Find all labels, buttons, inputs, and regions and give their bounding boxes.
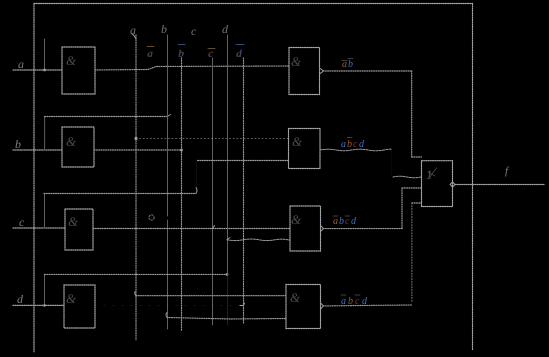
svg-text:b: b (15, 137, 21, 151)
bus line d (227, 35, 229, 275)
wire d branch horizontal to bus d (45, 273, 228, 275)
border frame top (34, 3, 473, 5)
node junction d-branch corner (43, 304, 46, 307)
wire stub above a (44, 39, 46, 70)
bus line b (167, 35, 169, 329)
svg-text:b: b (179, 48, 185, 60)
svg-text:b: b (348, 296, 353, 307)
svg-text:d: d (351, 216, 357, 227)
wire A1 output (323, 70, 412, 72)
svg-text:&: & (292, 134, 303, 149)
net label product 4 (341, 295, 368, 307)
bus line d-bar (243, 58, 245, 323)
node label b-bar (178, 45, 185, 61)
wire A3 output (323, 228, 403, 230)
wire I1 output (a-bar row) (95, 66, 289, 70)
wire A1 feeder down (411, 71, 413, 157)
wire c branch horizontal (44, 193, 196, 195)
wire bus-d corner to AND3 (wavy) (227, 238, 290, 241)
node junction bus-b / b-branch (168, 115, 171, 117)
node label c-bar (208, 48, 215, 61)
svg-text:f: f (505, 165, 510, 177)
svg-text:&: & (66, 291, 77, 306)
AND gate box A2 (289, 129, 321, 169)
bus line c-bar (212, 58, 214, 325)
svg-text:&: & (291, 54, 302, 69)
node U1 output hook (450, 182, 455, 187)
wire A3 feeder corner to OR (402, 187, 422, 189)
wire c stub faint (196, 161, 198, 187)
inverter box I2 (62, 127, 94, 167)
wire input c (13, 227, 65, 229)
node A1 output hook (320, 68, 324, 74)
wire input a (13, 69, 62, 71)
wire A2 feeder down faint (391, 150, 393, 177)
AND gate box A4 (286, 285, 321, 329)
border frame right (472, 4, 474, 351)
inverter box I1 (62, 47, 95, 94)
node A3 output hook (321, 226, 324, 232)
node bus-b corner hook (166, 313, 167, 318)
border frame left (33, 4, 35, 353)
svg-text:c: c (345, 216, 350, 227)
svg-text:a: a (148, 48, 154, 60)
node label a-bar (147, 47, 154, 61)
node junction bus-bbar / I2 out (180, 149, 183, 152)
node junction bus-d / d-branch (226, 273, 229, 276)
wire A4 feeder corner to OR (412, 202, 422, 204)
node junction bus-cbar / c-bar row (213, 226, 215, 229)
net label product 2 (341, 138, 365, 151)
node label d-bar (236, 45, 244, 61)
svg-text:b: b (347, 139, 352, 150)
bus line d lower faint (227, 275, 229, 326)
AND gate box A3 (290, 206, 321, 251)
svg-text:a: a (341, 139, 346, 150)
net label product 1 (342, 59, 353, 71)
bus line a (135, 35, 137, 340)
wire output f (455, 184, 544, 186)
wire AND2 input from c stub (198, 160, 289, 162)
svg-text:c: c (355, 296, 360, 307)
node junction bus-a / AND2 line (134, 137, 137, 140)
wire b branch up (44, 117, 46, 151)
wire A3 feeder up (401, 188, 403, 229)
wire AND2 input from bus a (136, 138, 289, 140)
wire A1 feeder corner to OR (412, 156, 422, 158)
svg-text:d: d (237, 48, 243, 60)
svg-text:c: c (191, 24, 197, 38)
svg-text:d: d (222, 22, 229, 36)
inverter box I3 (65, 209, 93, 250)
wire b branch horizontal to bus b (45, 116, 168, 118)
OR gate box U1 (422, 161, 453, 207)
svg-text:b: b (348, 59, 353, 70)
svg-text:&: & (291, 212, 302, 227)
svg-text:b: b (161, 22, 167, 36)
svg-text:a: a (333, 216, 338, 227)
svg-text:c: c (209, 48, 214, 60)
svg-text:b: b (339, 216, 344, 227)
bus line b-bar (181, 58, 183, 331)
svg-text:&: & (68, 214, 79, 229)
wire I2 output to bus b-bar (94, 149, 182, 151)
wire input d (13, 304, 64, 306)
svg-text:c: c (19, 215, 25, 229)
net label product 3 (333, 216, 357, 227)
AND gate box A1 (289, 48, 320, 95)
svg-text:d: d (359, 139, 365, 150)
wire I4 output (d-bar) faint to bus d-bar (95, 304, 244, 306)
node c hook up (196, 188, 197, 194)
wire input b (13, 149, 62, 151)
wire AND4 input from bus a (136, 295, 286, 297)
wire A2 feeder to OR wavy (393, 176, 422, 178)
node junction bus-dbar / I4 out (240, 303, 245, 306)
node bus-a top hook (132, 34, 136, 39)
svg-text:d: d (17, 292, 24, 306)
wire d branch up (44, 274, 46, 305)
svg-text:&: & (66, 53, 77, 68)
wire A2 output wavy (320, 149, 391, 151)
wire I3 output (c-bar) to AND3 (93, 228, 290, 230)
node junction a-branch (43, 69, 46, 72)
node A4 output hook (321, 303, 324, 309)
svg-text:&: & (66, 134, 77, 149)
svg-text:c: c (353, 139, 358, 150)
node junction bus-a / AND4 line (135, 292, 136, 296)
svg-text:a: a (130, 23, 136, 37)
svg-text:&: & (290, 290, 301, 305)
wire AND4 input from bus b (167, 318, 286, 320)
wire c branch up (44, 194, 46, 228)
inverter box I4 (64, 285, 95, 328)
wire A4 feeder up (411, 203, 413, 302)
node junction circle on c row (149, 215, 154, 220)
wire A4 output (323, 305, 412, 306)
svg-text:a: a (18, 57, 24, 71)
svg-text:a: a (341, 296, 346, 307)
